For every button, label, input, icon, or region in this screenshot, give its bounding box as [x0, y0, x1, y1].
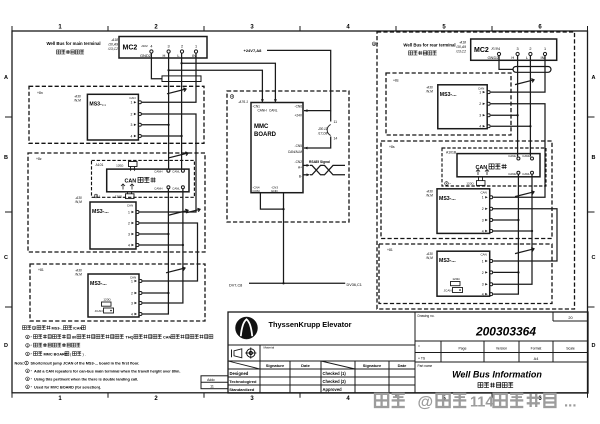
svg-text:-CN2: -CN2 [295, 160, 303, 164]
svg-text:Part name: Part name [418, 364, 433, 368]
svg-text:+8s: +8s [389, 145, 395, 149]
svg-text:/N,M: /N,M [74, 200, 82, 204]
twist mark above MS3-2 chain [169, 208, 200, 215]
svg-text:Date: Date [398, 363, 407, 368]
svg-text:CANL: CANL [172, 186, 180, 190]
svg-text:MS3-...: MS3-... [90, 281, 107, 287]
svg-text:CAN: CAN [127, 204, 133, 208]
svg-text:/N,M: /N,M [425, 256, 433, 260]
svg-text:CAN/ALM: CAN/ALM [288, 150, 303, 154]
svg-text:3: 3 [168, 45, 170, 49]
svg-text:3: 3 [131, 301, 133, 305]
wire IN to MS3-1 pin1 [142, 53, 196, 102]
svg-text:GND2: GND2 [487, 55, 499, 60]
board MS3-1 (-A30, left top) [73, 94, 141, 140]
icon first-angle projection [232, 349, 242, 358]
wire MS3r-1 pin3 branch to H [491, 114, 519, 116]
svg-text:+8z: +8z [36, 157, 42, 161]
svg-text:Used for MVC BOARD (for select: Used for MVC BOARD (for selection). [34, 386, 101, 390]
svg-text:/10,A9: /10,A9 [455, 45, 466, 49]
svg-text:D: D [592, 343, 596, 349]
svg-text:114: 114 [470, 395, 493, 411]
svg-text:+81: +81 [387, 248, 393, 252]
svg-text:120Ω: 120Ω [452, 277, 460, 281]
wire MS3-1 pin4 branch to L [142, 135, 183, 137]
svg-text:CANL: CANL [522, 154, 530, 158]
svg-text:A4: A4 [534, 357, 539, 361]
svg-text:MS3-...: MS3-... [52, 327, 64, 331]
icon crosshair [245, 347, 256, 358]
svg-text:4: 4 [128, 243, 130, 247]
svg-text:Standardized: Standardized [229, 387, 255, 392]
svg-text:2: 2 [130, 112, 132, 116]
wire CAN-H bus (right column) [517, 56, 519, 157]
enclosure +8n (top landing, left) [29, 86, 204, 143]
svg-text:JCAN: JCAN [95, 309, 103, 313]
svg-text:4: 4 [482, 293, 484, 297]
svg-text:Page: Page [459, 347, 467, 351]
label Well Bus for main terminal [46, 41, 100, 54]
svg-text:1: 1 [195, 45, 197, 49]
enclosure +81 (left bottom) [30, 264, 205, 321]
svg-text:B: B [592, 155, 596, 161]
svg-text:MMC: MMC [254, 124, 269, 130]
svg-text:2: 2 [128, 221, 130, 225]
svg-text:...: ... [564, 394, 577, 411]
svg-text:MS3-...: MS3-... [439, 258, 456, 264]
label Well Bus for rear terminal [403, 43, 455, 56]
board MS3-2 (-A30, left middle) [74, 196, 139, 249]
svg-text:CANH: CANH [508, 154, 516, 158]
svg-text:CAN: CAN [481, 190, 487, 194]
svg-text:/13,C2: /13,C2 [455, 50, 466, 54]
svg-text:JCAN: JCAN [444, 289, 452, 293]
svg-text:Add a CAN repeaters for can-bu: Add a CAN repeaters for can-bus main ter… [34, 370, 180, 374]
svg-text:=: = [418, 345, 420, 349]
note marker 4 (A101B) [445, 182, 452, 186]
svg-text:-CN6: -CN6 [295, 105, 303, 109]
svg-text:1: 1 [128, 210, 130, 214]
svg-text:3: 3 [130, 123, 132, 127]
wire CANL chain repeater-B to MS3r-2/3 [493, 174, 533, 284]
svg-text:Material: Material [264, 346, 275, 350]
svg-text:11: 11 [334, 120, 338, 124]
svg-text:2: 2 [181, 45, 183, 49]
RS485 twisted pair [303, 160, 345, 176]
svg-text:Format: Format [531, 347, 542, 351]
svg-text:120Ω: 120Ω [115, 195, 123, 199]
svg-text:/13,C2: /13,C2 [107, 47, 118, 51]
svg-text:CAN: CAN [163, 336, 171, 340]
svg-text:3: 3 [482, 218, 484, 222]
svg-text:4: 4 [150, 45, 152, 49]
svg-text:CAN: CAN [129, 96, 135, 100]
svg-text:CANH: CANH [154, 169, 162, 173]
svg-text:H: H [163, 53, 166, 58]
wire +24V7,A8 to MMC CN6 [244, 48, 331, 112]
svg-text:CANL: CANL [522, 172, 530, 176]
jumper JCAN with 120 ohm (MS3r-3) [444, 277, 463, 293]
svg-text:200303364: 200303364 [475, 325, 536, 339]
svg-text:COM: COM [253, 189, 261, 193]
svg-text:Shortcircuit jump JCAN of the: Shortcircuit jump JCAN of the MS3-... bo… [31, 362, 140, 366]
svg-text:Scale: Scale [566, 347, 575, 351]
svg-text:3: 3 [482, 283, 484, 287]
enclosure +8s (right middle) [381, 141, 552, 239]
twist mark below MC2 (left) [167, 88, 186, 94]
svg-text:IN: IN [541, 55, 545, 60]
svg-text:DV36,C1: DV36,C1 [347, 283, 362, 287]
svg-text:Designed: Designed [230, 371, 249, 376]
svg-text:/10,A9: /10,A9 [107, 43, 118, 47]
svg-text:3: 3 [517, 47, 519, 51]
svg-text:) .: ) . [83, 353, 86, 357]
svg-text:C: C [4, 255, 8, 261]
notes English line 2 [26, 369, 181, 374]
wire CANH chain repeater-B to MS3r-2/3 [493, 174, 520, 294]
svg-text:A101B: A101B [446, 151, 457, 155]
enclosure +8s (right top) [386, 73, 511, 135]
connector J30.11 pins 11/14 [304, 111, 337, 150]
connector MC2 (rear terminal) -A18 [455, 39, 557, 60]
cable screen oval (main) [162, 76, 201, 82]
notes Chinese line 3 [26, 343, 80, 348]
wire chain MS3r-2 pin2 to MS3r-3 pin1 [493, 209, 557, 261]
wire CANH branch MC2-H to MMC [168, 69, 264, 103]
svg-text:1: 1 [131, 279, 133, 283]
svg-text:THQ: THQ [126, 336, 134, 340]
svg-text:1: 1 [479, 91, 481, 95]
svg-text:2: 2 [482, 271, 484, 275]
wire chain MS3-2 pin2 to MS3-3 pin1 [140, 223, 198, 281]
svg-text:/N,M: /N,M [73, 99, 81, 103]
CAN repeater A101 box [107, 162, 189, 199]
svg-text:Checked (1): Checked (1) [323, 371, 347, 376]
enclosure A101B (CAN repeater unit, rear) [442, 148, 546, 186]
svg-text:Drawing no.: Drawing no. [418, 314, 435, 318]
svg-text:14: 14 [334, 137, 338, 141]
svg-text:J01B: J01B [491, 47, 498, 51]
svg-text:Signature: Signature [266, 363, 285, 368]
svg-text:MS3-...: MS3-... [92, 209, 109, 215]
wire CANL branch MC2-L to MMC [181, 62, 277, 102]
revision box Add. 11 [201, 376, 228, 389]
board MS3-3 (-A30, left bottom) [74, 268, 142, 317]
svg-text:120Ω: 120Ω [466, 182, 474, 186]
svg-text:A: A [592, 75, 596, 81]
board MS3r-3 (-A30, right bottom) [425, 251, 493, 296]
svg-text:Well Bus Information: Well Bus Information [452, 370, 542, 380]
title block texts [229, 314, 575, 392]
board MMC [251, 103, 303, 194]
svg-text:C: C [592, 255, 596, 261]
svg-text:3: 3 [479, 114, 481, 118]
svg-text:-A18: -A18 [459, 41, 466, 45]
svg-text:J104: J104 [141, 44, 148, 48]
svg-text:Addc: Addc [207, 378, 215, 382]
wire CAN-L bus (left column) [181, 53, 183, 169]
wire chain MS3-1 pin2 to MS3-2 pin1 [140, 114, 197, 212]
svg-text:CANL: CANL [269, 109, 278, 113]
cable screen oval (rear) [513, 67, 551, 73]
enclosure A101 (CAN repeater unit) [92, 160, 195, 197]
svg-text:20: 20 [568, 316, 572, 320]
svg-text:Approved: Approved [323, 387, 343, 392]
svg-text:CAN: CAN [481, 253, 487, 257]
svg-text:1: 1 [544, 47, 546, 51]
svg-text:+24V: +24V [294, 114, 302, 118]
svg-text:4: 4 [498, 47, 500, 51]
connector MC2 (main terminal) -A18 [107, 37, 207, 59]
svg-text:Technologired: Technologired [229, 379, 257, 384]
svg-text:4: 4 [482, 229, 484, 233]
svg-text:A: A [4, 75, 8, 81]
wire IN rear to MS3r-1 pin1 [491, 56, 545, 93]
svg-text:CANH: CANH [508, 172, 516, 176]
svg-text:+8n: +8n [37, 91, 43, 95]
svg-text:GND: GND [271, 189, 279, 193]
svg-text:RS485 Signal: RS485 Signal [309, 160, 330, 164]
enclosure rear terminal (outer, right) [372, 32, 574, 309]
svg-text:Version: Version [496, 347, 507, 351]
svg-text:Well Bus for main terminal: Well Bus for main terminal [46, 41, 100, 46]
svg-text:2: 2 [479, 102, 481, 106]
notes English line 4 [26, 385, 101, 390]
svg-text:DV7,C8: DV7,C8 [229, 283, 242, 287]
svg-text:CAN: CAN [125, 179, 137, 185]
notes English line 1 [15, 361, 140, 365]
twist mark below rear MC2 [515, 79, 534, 85]
svg-text:Well Bus for rear terminal: Well Bus for rear terminal [403, 43, 455, 48]
svg-text:-A76.1: -A76.1 [238, 100, 248, 104]
notes Chinese line 1 [23, 326, 86, 331]
svg-text:4: 4 [131, 312, 133, 316]
svg-text:4: 4 [130, 134, 132, 138]
CAN repeater A101B box [457, 154, 540, 186]
svg-text:/17,D8: /17,D8 [317, 131, 328, 135]
svg-text:3: 3 [128, 232, 130, 236]
board MS3r-1 (-A30, right top) [425, 85, 490, 129]
svg-text:D: D [4, 343, 8, 349]
title block [228, 312, 588, 393]
svg-text:Note:: Note: [15, 362, 25, 366]
svg-text:2: 2 [131, 291, 133, 295]
enclosure +81 (right bottom) [379, 244, 552, 304]
wire chain MS3r-1 pin2 to MS3r-2 pin1 [491, 104, 545, 198]
wire CAN-L bus (right column) [529, 56, 531, 157]
svg-text:+ TS: + TS [418, 357, 426, 361]
svg-text:/CAN: /CAN [73, 327, 83, 331]
svg-text:1: 1 [482, 259, 484, 263]
svg-text:A101: A101 [96, 163, 104, 167]
svg-text:Using this pertinent when the: Using this pertinent when the there is d… [34, 378, 138, 382]
svg-text:H: H [511, 55, 514, 60]
twist mark above MS3-3 (left) [166, 267, 185, 273]
svg-text:GND2: GND2 [140, 53, 152, 58]
notes Chinese line 2 [26, 335, 213, 340]
svg-text:MMC BOARD: MMC BOARD [44, 353, 68, 357]
wire GND2 rear to cable screen [499, 56, 513, 70]
svg-text:/N,M: /N,M [425, 90, 433, 94]
svg-text:BOARD: BOARD [254, 132, 277, 138]
svg-text:A+: A+ [298, 165, 302, 169]
svg-text:MC2: MC2 [123, 45, 138, 52]
note marker 4 (A101) [94, 194, 101, 198]
notes Chinese line 4 [26, 352, 86, 357]
svg-text:2: 2 [482, 207, 484, 211]
node DV7,C8 / DV36,C1 rail [229, 282, 362, 287]
svg-text:+81: +81 [38, 268, 44, 272]
wire GND2 to cable screen [151, 53, 162, 79]
svg-text:+8s: +8s [393, 79, 399, 83]
enclosure +8z (left middle) [28, 153, 205, 252]
svg-text:MS3-...: MS3-... [439, 196, 456, 202]
svg-text:2: 2 [529, 47, 531, 51]
wire CANH chain repeater to MS3-2/MS3-3 [140, 189, 170, 314]
svg-text:4: 4 [479, 125, 481, 129]
svg-text:Date: Date [301, 363, 310, 368]
svg-text:120Ω: 120Ω [116, 164, 124, 168]
wire CANL chain repeater to MS3-2/MS3-3 [140, 189, 184, 303]
enclosure MMC (-A76.1) [227, 91, 349, 222]
twist mark above CAN repeater (left) [169, 152, 188, 158]
svg-text:+24V7,A8: +24V7,A8 [244, 48, 263, 53]
svg-text:-A18: -A18 [111, 38, 118, 42]
svg-text:1: 1 [482, 196, 484, 200]
wire MS3-1 pin3 branch to H [142, 124, 170, 126]
notes English line 3 [26, 377, 139, 382]
svg-text:MS3-...: MS3-... [89, 101, 106, 107]
svg-text:120Ω: 120Ω [103, 298, 111, 302]
svg-text:CANH: CANH [154, 186, 162, 190]
svg-text:CANL: CANL [172, 169, 180, 173]
svg-text:Checked (2): Checked (2) [323, 379, 347, 384]
svg-text:80: 80 [72, 336, 76, 340]
svg-text:/N,M: /N,M [74, 272, 82, 276]
svg-text:Signature: Signature [363, 363, 382, 368]
logo ThyssenKrupp [236, 317, 258, 339]
svg-text:MC2: MC2 [474, 47, 489, 54]
watermark zhihu [375, 394, 577, 412]
twist mark above MS3r-2 chain [515, 191, 534, 197]
svg-text:MS3-...: MS3-... [440, 92, 457, 98]
svg-text:11: 11 [210, 385, 214, 389]
wire CAN-H bus (left column) [168, 53, 170, 169]
svg-text:@: @ [418, 394, 434, 411]
svg-text:B-: B- [299, 175, 302, 179]
part name Well Bus Information [452, 370, 542, 388]
svg-text:1: 1 [130, 101, 132, 105]
board MS3r-2 (-A30, right middle) [425, 189, 493, 234]
svg-text:/N,M: /N,M [425, 194, 433, 198]
svg-text:-CN5: -CN5 [295, 144, 303, 148]
jumper JCAN with 120 ohm (MS3-3 left) [95, 298, 114, 314]
svg-text:CANH: CANH [258, 109, 268, 113]
svg-text:ThyssenKrupp Elevator: ThyssenKrupp Elevator [269, 320, 352, 329]
twist mark above MS3r-3 [515, 248, 534, 254]
wire MS3r-1 pin4 branch to L [491, 125, 532, 127]
wire MMC CN4/CN3 to ground rail [260, 193, 284, 284]
svg-text:B: B [4, 155, 8, 161]
